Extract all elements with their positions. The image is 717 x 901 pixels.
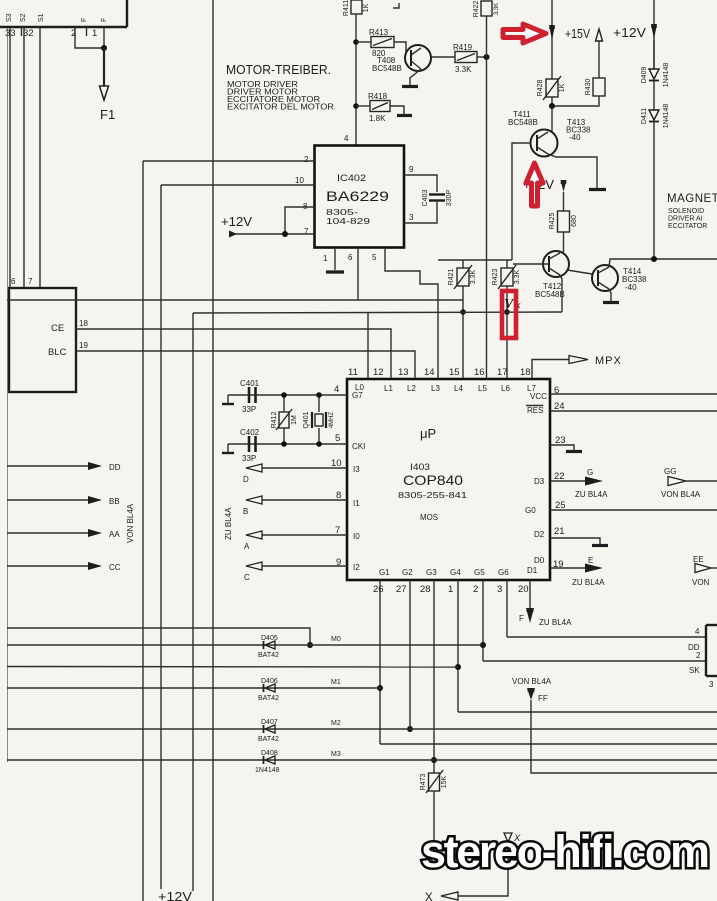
- IC403 COP840: [347, 379, 550, 580]
- svg-text:6: 6: [11, 277, 16, 286]
- svg-text:L2: L2: [407, 384, 416, 393]
- svg-text:D1: D1: [527, 566, 538, 575]
- svg-text:C: C: [244, 573, 250, 582]
- svg-text:E: E: [588, 556, 593, 565]
- wire G6 pin3 down: [506, 580, 508, 637]
- wire BLC pin19 to COP pin13: [76, 351, 415, 379]
- svg-text:C401: C401: [240, 379, 260, 388]
- svg-text:L4: L4: [454, 384, 463, 393]
- capacitor C402: [240, 428, 260, 463]
- svg-text:4: 4: [344, 134, 349, 143]
- ground pin21: [592, 544, 608, 547]
- svg-text:S3: S3: [6, 13, 13, 22]
- svg-text:BAT42: BAT42: [258, 652, 279, 659]
- row M1 with D406: [7, 687, 380, 689]
- wire I2 with arrow C: [262, 565, 347, 567]
- CE/BLC box: [9, 288, 76, 392]
- svg-text:FF: FF: [538, 694, 548, 703]
- node row628/M0: [307, 642, 313, 648]
- wire COP pin22 G arrow: [550, 480, 586, 482]
- small stub top: [393, 3, 399, 8]
- wire IC402 pin8: [285, 207, 314, 234]
- svg-text:1: 1: [92, 28, 97, 39]
- svg-text:1: 1: [448, 584, 453, 595]
- svg-text:1K: 1K: [559, 83, 566, 92]
- svg-text:VON BL4A: VON BL4A: [126, 503, 135, 543]
- svg-text:G7: G7: [352, 391, 363, 400]
- svg-text:+15V: +15V: [565, 27, 591, 41]
- svg-text:A: A: [244, 542, 250, 551]
- wire COP pin24 RES to right edge: [550, 410, 717, 412]
- crystal Q401: [303, 411, 335, 428]
- wire pin to R425: [563, 192, 565, 211]
- left sheet border: [7, 27, 9, 762]
- wire AA arrow: [7, 532, 90, 534]
- wire COP pin19 E arrow: [550, 567, 586, 569]
- wire COP pin18 to MPX: [532, 360, 569, 380]
- svg-text:G6: G6: [498, 568, 509, 577]
- svg-text:2: 2: [473, 584, 478, 595]
- svg-text:F: F: [101, 18, 108, 22]
- svg-text:DRIVER AI: DRIVER AI: [668, 216, 703, 223]
- transistor T412: [535, 251, 569, 299]
- wire T414 emitter to ground: [609, 289, 611, 301]
- wire R423 bottom to COP pin17: [506, 286, 508, 379]
- arrow X open down: [504, 833, 512, 842]
- resistor R422: [473, 1, 500, 18]
- ground R418: [397, 114, 412, 117]
- svg-text:C403: C403: [422, 190, 429, 207]
- svg-text:MOTOR-TREIBER.: MOTOR-TREIBER.: [226, 63, 331, 77]
- svg-text:G: G: [587, 468, 593, 477]
- svg-text:G1: G1: [379, 568, 390, 577]
- wire R421 bottom to COP pin15: [462, 286, 464, 379]
- wire COP pin25 G0 to right edge: [550, 509, 717, 511]
- ground T411 emitter: [589, 188, 606, 191]
- svg-text:12: 12: [373, 367, 384, 378]
- svg-text:26: 26: [373, 584, 384, 595]
- wire COP pin6 VCC to right edge: [550, 393, 717, 395]
- svg-text:I1: I1: [353, 499, 360, 508]
- long signal line y=300: [7, 299, 463, 301]
- wire pin33 to CE box: [9, 27, 11, 288]
- svg-text:-40: -40: [625, 283, 637, 292]
- long vertical from IC402 pin2 x=143: [142, 161, 144, 901]
- svg-text:R425: R425: [549, 213, 556, 230]
- wire COP pin20 D1 to F arrow: [529, 580, 531, 608]
- resistor R425: [549, 211, 578, 232]
- svg-text:MPX: MPX: [595, 355, 622, 367]
- node pin7/pin8 junction: [282, 231, 288, 237]
- svg-text:1M: 1M: [291, 415, 298, 425]
- node G5/M0: [480, 642, 486, 648]
- wire R422 to junction: [486, 16, 488, 57]
- node R418 junction: [353, 103, 359, 109]
- node R419/R422 junction: [484, 54, 490, 60]
- annotation red arrow right: [503, 24, 546, 43]
- ground IC402 pin1: [326, 270, 344, 273]
- node R421 line312: [460, 309, 466, 315]
- svg-text:RES: RES: [527, 406, 543, 415]
- wire pin1 to F1 node: [103, 27, 105, 48]
- svg-text:19: 19: [79, 341, 88, 350]
- svg-text:μP: μP: [420, 426, 436, 441]
- svg-text:D2: D2: [534, 530, 545, 539]
- svg-text:F1: F1: [100, 107, 115, 122]
- wire R430 bottom to node: [552, 96, 599, 106]
- svg-text:ZU BL4A: ZU BL4A: [224, 507, 233, 540]
- row M3 with D408: [7, 759, 717, 761]
- svg-text:BLC: BLC: [48, 347, 67, 358]
- svg-text:1.8K: 1.8K: [369, 114, 386, 123]
- IC402 BA6229: [315, 146, 405, 248]
- wire node to T411 collector: [551, 106, 553, 131]
- svg-text:BC548B: BC548B: [372, 64, 402, 73]
- node G3/M3: [431, 757, 437, 763]
- resistor R421: [448, 265, 477, 289]
- svg-text:18: 18: [520, 367, 531, 378]
- svg-text:BB: BB: [109, 497, 120, 506]
- wire T408 collector to R419: [431, 56, 455, 58]
- connector pin symbol +15V: [549, 25, 555, 40]
- wire R413 left: [356, 41, 371, 43]
- svg-text:I0: I0: [353, 532, 360, 541]
- svg-text:ZU BL4A: ZU BL4A: [572, 578, 605, 587]
- svg-text:3.3K: 3.3K: [514, 269, 521, 284]
- svg-text:F: F: [519, 614, 524, 623]
- ground T408: [402, 85, 418, 88]
- svg-text:COP840: COP840: [403, 472, 463, 488]
- connector pin symbol +12V: [651, 24, 657, 39]
- svg-text:G5: G5: [474, 568, 485, 577]
- arrow F solid down: [526, 608, 534, 623]
- wire G2 pin27 down: [409, 580, 411, 729]
- svg-text:Q401: Q401: [303, 411, 310, 428]
- svg-text:L1: L1: [384, 384, 393, 393]
- wire G1 bend right to edge: [380, 743, 717, 745]
- oscillator rail pin5 CKI: [228, 443, 347, 445]
- long bus vertical x=213: [212, 0, 214, 901]
- node R423 line312: [504, 309, 510, 315]
- svg-text:+12V: +12V: [613, 26, 647, 40]
- wire T412 emitter down: [560, 275, 562, 312]
- wire R413 to T408 base: [394, 42, 406, 52]
- svg-text:3.3K: 3.3K: [455, 65, 472, 74]
- wire F1 stem: [103, 48, 105, 86]
- svg-text:CE: CE: [51, 323, 64, 334]
- svg-text:G4: G4: [450, 568, 461, 577]
- svg-text:D407: D407: [261, 719, 278, 726]
- svg-text:SOLENOID: SOLENOID: [668, 208, 704, 215]
- wire base rail y=260: [438, 259, 512, 261]
- svg-text:+12V: +12V: [158, 890, 193, 901]
- svg-text:ECCITATOR: ECCITATOR: [668, 223, 707, 230]
- svg-text:C402: C402: [240, 428, 260, 437]
- wire C403 to IC402 pin3: [404, 202, 437, 223]
- wire IC402 pin2 left: [143, 160, 314, 162]
- svg-text:BAT42: BAT42: [258, 736, 279, 743]
- diode D405: [258, 635, 279, 659]
- long vertical from IC402 pin10 x=161: [160, 185, 162, 889]
- wire +12V rail: [653, 0, 655, 69]
- svg-text:D409: D409: [641, 67, 648, 84]
- annotation red arrow up: [526, 163, 543, 206]
- wire R428 to node: [551, 97, 553, 106]
- wire COP pin11 up: [367, 312, 369, 379]
- transistor T414: [592, 265, 647, 292]
- svg-text:M2: M2: [331, 720, 341, 727]
- wire X arrow bottom: [458, 841, 508, 896]
- svg-text:BA6229: BA6229: [326, 188, 389, 204]
- svg-text:33P: 33P: [242, 454, 256, 463]
- wire S1 to CE box pin7: [39, 27, 41, 288]
- svg-text:3: 3: [709, 680, 714, 689]
- resistor R412 1M: [271, 409, 298, 430]
- ground T414: [603, 301, 619, 304]
- diode D411: [641, 104, 670, 129]
- svg-text:3.3K: 3.3K: [470, 269, 477, 284]
- svg-text:21: 21: [554, 526, 565, 537]
- svg-text:VON: VON: [692, 578, 710, 587]
- svg-text:R430: R430: [585, 79, 592, 96]
- wire junction down to COP pin16: [486, 57, 488, 379]
- arrow EE from right: [695, 564, 711, 573]
- node G4 row666: [455, 664, 461, 670]
- svg-text:1K: 1K: [363, 3, 370, 12]
- svg-text:VON BL4A: VON BL4A: [512, 677, 552, 686]
- resistor R428: [537, 76, 566, 100]
- svg-text:I3: I3: [353, 465, 360, 474]
- arrow MPX open: [569, 356, 588, 364]
- svg-text:15: 15: [449, 367, 460, 378]
- svg-text:S2: S2: [20, 13, 27, 22]
- svg-text:VON BL4A: VON BL4A: [661, 490, 701, 499]
- transistor T408: [372, 45, 431, 73]
- resistor R423: [492, 265, 521, 289]
- wire I0 with arrow A: [262, 534, 347, 536]
- wire G3 pin28 down to R473: [433, 580, 435, 773]
- wire pin2 to F1 node: [75, 27, 104, 48]
- arrow F1 open head: [100, 86, 109, 100]
- svg-text:17: 17: [497, 367, 508, 378]
- svg-text:16: 16: [474, 367, 485, 378]
- svg-text:680: 680: [571, 215, 578, 227]
- svg-text:D411: D411: [641, 108, 648, 124]
- transistor T411/T413 pair: [531, 130, 558, 157]
- svg-text:BC548B: BC548B: [508, 118, 538, 127]
- svg-text:27: 27: [396, 584, 407, 595]
- svg-text:20: 20: [518, 584, 529, 595]
- wire IC402 pin6 down: [357, 248, 359, 300]
- resistor R473: [420, 770, 448, 793]
- wire IC402 pin1 to ground: [334, 248, 336, 270]
- svg-text:10: 10: [295, 176, 304, 185]
- svg-text:9: 9: [409, 165, 414, 174]
- ground pin23: [566, 450, 582, 453]
- svg-text:ZU BL4A: ZU BL4A: [539, 618, 572, 627]
- svg-text:M3: M3: [331, 751, 341, 758]
- svg-text:+12V: +12V: [221, 215, 253, 229]
- svg-text:104-829: 104-829: [326, 217, 371, 226]
- supply arrow +12V left: [229, 231, 237, 238]
- wire R421 top: [462, 260, 464, 268]
- svg-text:L5: L5: [478, 384, 487, 393]
- wire FF down and right to edge: [531, 700, 717, 773]
- svg-text:1N4148: 1N4148: [663, 63, 670, 88]
- wire R423 top: [506, 260, 508, 268]
- svg-text:CKI: CKI: [352, 442, 365, 451]
- svg-text:1: 1: [323, 254, 328, 263]
- wire IC402 pin10 left: [161, 184, 314, 186]
- svg-text:11: 11: [348, 367, 358, 378]
- svg-text:7: 7: [28, 277, 33, 286]
- svg-text:D0: D0: [534, 556, 545, 565]
- row y=628: [7, 628, 310, 645]
- svg-text:GG: GG: [664, 467, 676, 476]
- svg-text:13: 13: [398, 367, 409, 378]
- svg-text:R412: R412: [271, 412, 278, 429]
- node R413 junction: [353, 39, 359, 45]
- diode D407: [258, 719, 279, 743]
- wire R418 right to ground: [390, 106, 404, 114]
- svg-text:D408: D408: [261, 750, 278, 757]
- wire I3 with arrow D: [262, 467, 347, 469]
- wire I1 with arrow B: [262, 499, 347, 501]
- wire D411 down to magnet rail: [653, 122, 655, 259]
- long signal line y=312: [193, 312, 562, 313]
- svg-text:3: 3: [497, 584, 502, 595]
- svg-text:B: B: [243, 507, 248, 516]
- wire IC402 pin7 to +12V: [232, 233, 314, 235]
- svg-text:BAT42: BAT42: [258, 695, 279, 702]
- arrow FF solid down: [527, 688, 535, 700]
- node F1 junction: [101, 45, 107, 51]
- node magnet rail junction: [651, 256, 657, 262]
- connector pin symbol +12V mid: [561, 180, 567, 192]
- row y=666: [7, 666, 458, 669]
- svg-text:IC402: IC402: [337, 173, 366, 184]
- svg-text:MOS: MOS: [420, 513, 438, 522]
- svg-text:R428: R428: [537, 80, 544, 97]
- node G2/M2: [407, 726, 413, 732]
- svg-text:R473: R473: [420, 774, 427, 791]
- svg-text:8305-255-841: 8305-255-841: [398, 491, 468, 500]
- svg-text:D: D: [243, 475, 249, 484]
- wire G4 pin1 down: [457, 580, 459, 712]
- svg-text:28: 28: [420, 584, 431, 595]
- svg-text:5: 5: [372, 253, 377, 262]
- resistor R430: [585, 78, 605, 96]
- svg-text:L3: L3: [431, 384, 440, 393]
- svg-text:BC548B: BC548B: [535, 290, 565, 299]
- svg-text:S1: S1: [38, 13, 45, 22]
- svg-text:3.3K: 3.3K: [494, 3, 500, 15]
- wire CE pin18 to COP pin12: [76, 329, 391, 379]
- wire R425 to T412 collector: [563, 232, 565, 252]
- wire G1 pin26 down: [379, 580, 381, 744]
- svg-text:5: 5: [335, 433, 340, 444]
- svg-text:D406: D406: [261, 678, 278, 685]
- svg-text:G3: G3: [426, 568, 437, 577]
- svg-text:DD: DD: [109, 463, 121, 472]
- long vertical x=193: [192, 313, 194, 891]
- svg-text:R418: R418: [368, 92, 388, 101]
- wire COP pin21 to ground: [550, 538, 600, 544]
- wire T414 collector to magnet rail: [609, 259, 717, 267]
- svg-text:R411: R411: [343, 0, 350, 16]
- wire COP pin23 to ground: [550, 445, 574, 450]
- wire CC arrow: [7, 565, 90, 567]
- svg-text:4MHZ: 4MHZ: [329, 412, 335, 429]
- wire T412 base left: [513, 263, 549, 265]
- wire DD arrow: [7, 465, 90, 467]
- svg-text:D3: D3: [534, 477, 545, 486]
- svg-text:R421: R421: [448, 269, 455, 286]
- resistor R418: [368, 92, 390, 123]
- svg-text:2: 2: [696, 651, 701, 660]
- svg-text:AA: AA: [109, 530, 120, 539]
- svg-text:2: 2: [304, 155, 309, 164]
- wire R411 down to IC402 pin4: [355, 14, 357, 146]
- svg-text:33P: 33P: [242, 405, 256, 414]
- resistor R413: [369, 28, 394, 58]
- svg-text:ZU BL4A: ZU BL4A: [575, 490, 608, 499]
- arrow +15V open up for R430: [596, 29, 603, 41]
- svg-text:-40: -40: [569, 133, 581, 142]
- svg-text:4: 4: [334, 384, 339, 395]
- diode D409: [641, 40, 670, 87]
- svg-text:EE: EE: [693, 555, 704, 564]
- resistor R419: [453, 43, 477, 74]
- svg-text:330P: 330P: [446, 190, 453, 207]
- svg-text:1N4148: 1N4148: [255, 767, 280, 774]
- svg-text:G0: G0: [525, 506, 536, 515]
- svg-text:14: 14: [424, 367, 435, 378]
- wire G4 bend right to edge: [458, 711, 717, 713]
- wire R418 left: [356, 105, 370, 107]
- wire pin32 to CE box pin6: [23, 27, 25, 288]
- svg-text:M1: M1: [331, 679, 341, 686]
- wire R419 to node: [477, 56, 486, 58]
- connector J1 top-left: [0, 0, 127, 36]
- wire T411 base left and down: [512, 143, 531, 260]
- stub left bottom: [227, 444, 229, 452]
- svg-text:SK: SK: [689, 666, 700, 675]
- svg-text:CC: CC: [109, 563, 121, 572]
- svg-text:6: 6: [348, 253, 353, 262]
- svg-text:4: 4: [695, 627, 700, 636]
- svg-text:8305-: 8305-: [326, 208, 359, 217]
- svg-text:R419: R419: [453, 43, 473, 52]
- svg-text:I2: I2: [353, 563, 360, 572]
- diode D406: [258, 678, 279, 702]
- svg-text:MAGNET: MAGNET: [667, 193, 717, 205]
- capacitor C401: [240, 379, 260, 414]
- diode D408: [255, 750, 280, 774]
- wire T408 emitter to ground: [410, 69, 421, 85]
- wire R473 down behind watermark: [433, 791, 435, 856]
- wire D409 to D411: [653, 81, 655, 110]
- svg-text:G2: G2: [402, 568, 413, 577]
- svg-text:F: F: [81, 18, 88, 22]
- wire T412 to T414 base: [567, 270, 592, 274]
- svg-text:VCC: VCC: [530, 392, 547, 401]
- svg-text:R422: R422: [473, 1, 480, 18]
- svg-text:3: 3: [409, 213, 414, 222]
- wire IC402 pin9 to C403: [404, 175, 437, 192]
- resistor R411: [343, 0, 370, 16]
- svg-text:stereo-hifi.com: stereo-hifi.com: [421, 826, 709, 877]
